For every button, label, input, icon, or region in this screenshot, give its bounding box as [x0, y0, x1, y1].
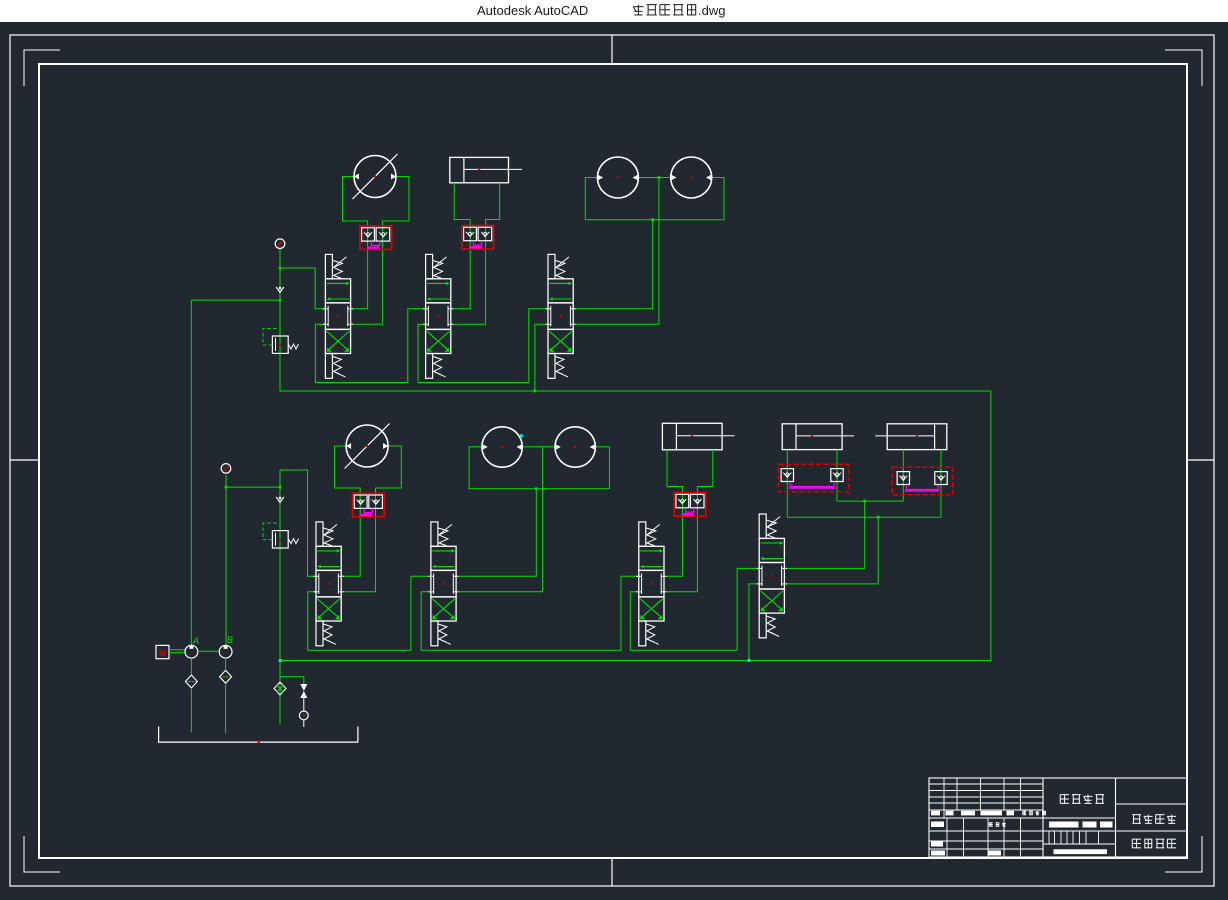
svg-text:Autodesk AutoCAD: Autodesk AutoCAD: [477, 3, 588, 18]
svg-text:M: M: [159, 648, 167, 658]
svg-text:B: B: [227, 635, 233, 645]
svg-text:.dwg: .dwg: [698, 3, 725, 18]
svg-text:A: A: [192, 636, 199, 646]
